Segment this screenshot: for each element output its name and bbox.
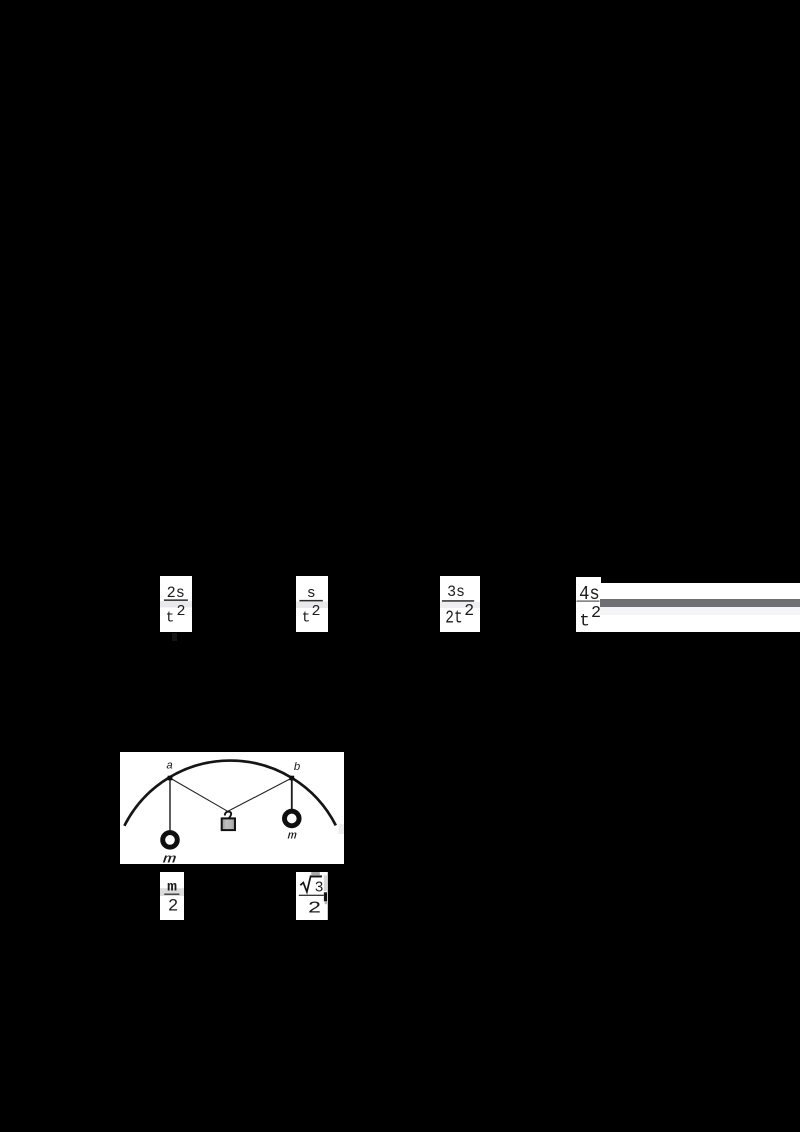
node b xyxy=(289,775,294,780)
svg-text:2: 2 xyxy=(464,601,474,620)
formula image D: stretched right part with grey fraction bar xyxy=(600,583,800,632)
formula image F: sqrt(3)/2 xyxy=(296,872,328,920)
hook above block xyxy=(224,811,230,818)
svg-text:4s: 4s xyxy=(579,583,600,605)
formula image E: m/2 xyxy=(160,872,184,920)
svg-text:a: a xyxy=(166,759,173,772)
svg-text:2: 2 xyxy=(168,897,178,916)
physics diagram image: arc with points a,b, hanging rings m and block xyxy=(120,752,344,865)
string from a to left ring xyxy=(169,778,171,831)
svg-text:t: t xyxy=(302,611,311,627)
svg-text:m: m xyxy=(287,829,296,842)
formula image C: 3s/2t^2 xyxy=(440,576,480,632)
svg-text:b: b xyxy=(293,760,300,773)
formula image B: s/t^2 xyxy=(296,576,328,632)
formula image D: 4s/t^2 (left fragment) xyxy=(576,577,601,632)
left ring m xyxy=(162,832,177,847)
formula image A: 2s/t^2 xyxy=(160,576,192,632)
right ring m xyxy=(284,811,299,826)
string from b to right ring xyxy=(290,778,292,810)
faint artifact under formula A xyxy=(172,633,177,641)
V strings to hook xyxy=(170,778,228,811)
node a xyxy=(167,775,172,780)
svg-text:s: s xyxy=(307,585,316,602)
svg-text:3s: 3s xyxy=(447,583,465,601)
svg-text:m: m xyxy=(167,880,177,895)
radical sign xyxy=(300,876,321,891)
svg-text:2: 2 xyxy=(177,603,186,620)
svg-text:2t: 2t xyxy=(445,608,462,628)
svg-text:3: 3 xyxy=(315,880,324,896)
svg-text:2: 2 xyxy=(308,898,322,917)
hanging block xyxy=(221,818,234,830)
svg-text:m: m xyxy=(162,852,176,864)
svg-text:2s: 2s xyxy=(167,584,185,602)
svg-text:t: t xyxy=(166,611,175,627)
svg-text:2: 2 xyxy=(312,603,321,620)
svg-text:t: t xyxy=(579,611,590,631)
arc (circular hill) xyxy=(124,760,335,825)
r-like dark mark xyxy=(324,892,327,901)
